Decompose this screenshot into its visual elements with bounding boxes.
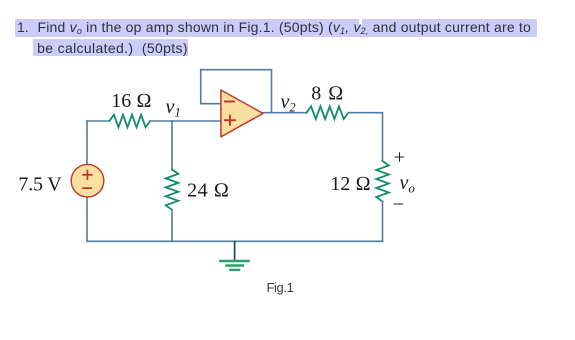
problem text line 2 xyxy=(37,40,188,56)
op-amp U1 xyxy=(221,90,263,137)
wire: left vertical branch xyxy=(86,121,88,241)
svg-text:v1: v1 xyxy=(166,96,181,120)
wire: top rail from R 16ohm through node v1 to op-amp + input xyxy=(150,120,221,122)
svg-text:+: + xyxy=(394,146,405,168)
svg-text:7.5 V: 7.5 V xyxy=(18,173,62,195)
wire: top rail left lead to R 16ohm xyxy=(87,120,109,122)
wire: feedback left vertical xyxy=(200,70,202,104)
problem text line 1 xyxy=(38,19,531,36)
label node v1 xyxy=(166,96,181,120)
svg-text:−: − xyxy=(393,193,404,215)
wire: R 8ohm to top-right corner and down xyxy=(348,113,382,161)
figure label Fig.1 xyxy=(267,280,294,295)
problem text line 1 number xyxy=(17,19,29,35)
op-amp non-inverting input sign xyxy=(224,115,236,126)
wire: op-amp output to R 8ohm xyxy=(263,112,307,114)
ground bars xyxy=(220,261,248,270)
label vo plus polarity xyxy=(394,146,405,168)
highlight notch xyxy=(359,19,361,26)
svg-text:vo: vo xyxy=(400,172,416,196)
label 24 ohm xyxy=(187,179,229,201)
svg-text:v2: v2 xyxy=(281,91,296,115)
wire: below R 12ohm to bottom rail xyxy=(382,202,384,242)
ground stem xyxy=(234,241,236,260)
svg-text:16 Ω: 16 Ω xyxy=(111,90,151,112)
label 8 ohm xyxy=(311,82,344,104)
highlight band line 2 xyxy=(33,39,188,55)
label vo minus polarity xyxy=(393,193,404,215)
label 12 ohm xyxy=(330,173,370,195)
wire: feedback right vertical down to output node v2 xyxy=(271,70,273,113)
resistor R 16ohm zigzag xyxy=(109,115,150,128)
op-amp inverting input sign xyxy=(224,101,235,103)
resistor R 24ohm zigzag xyxy=(166,169,179,209)
voltage source V1 7.5V xyxy=(71,164,104,197)
svg-text:12 Ω: 12 Ω xyxy=(330,173,370,195)
resistor R 8ohm zigzag xyxy=(307,106,349,119)
highlight band line 1 xyxy=(15,19,537,38)
label node v2 xyxy=(281,91,296,115)
resistor R 12ohm zigzag xyxy=(376,161,389,202)
svg-text:24 Ω: 24 Ω xyxy=(187,179,229,201)
label vo xyxy=(400,172,416,196)
wire: feedback minus-input segment xyxy=(201,103,221,105)
wire: feedback top horizontal xyxy=(201,69,272,71)
label 16 ohm xyxy=(111,90,151,112)
label 7.5 V xyxy=(18,173,62,195)
wire: node v1 branch down to R 24ohm xyxy=(171,121,173,169)
svg-text:8 Ω: 8 Ω xyxy=(311,82,344,104)
wire: bottom rail xyxy=(87,240,383,242)
wire: below R 24ohm to bottom rail xyxy=(171,210,173,242)
